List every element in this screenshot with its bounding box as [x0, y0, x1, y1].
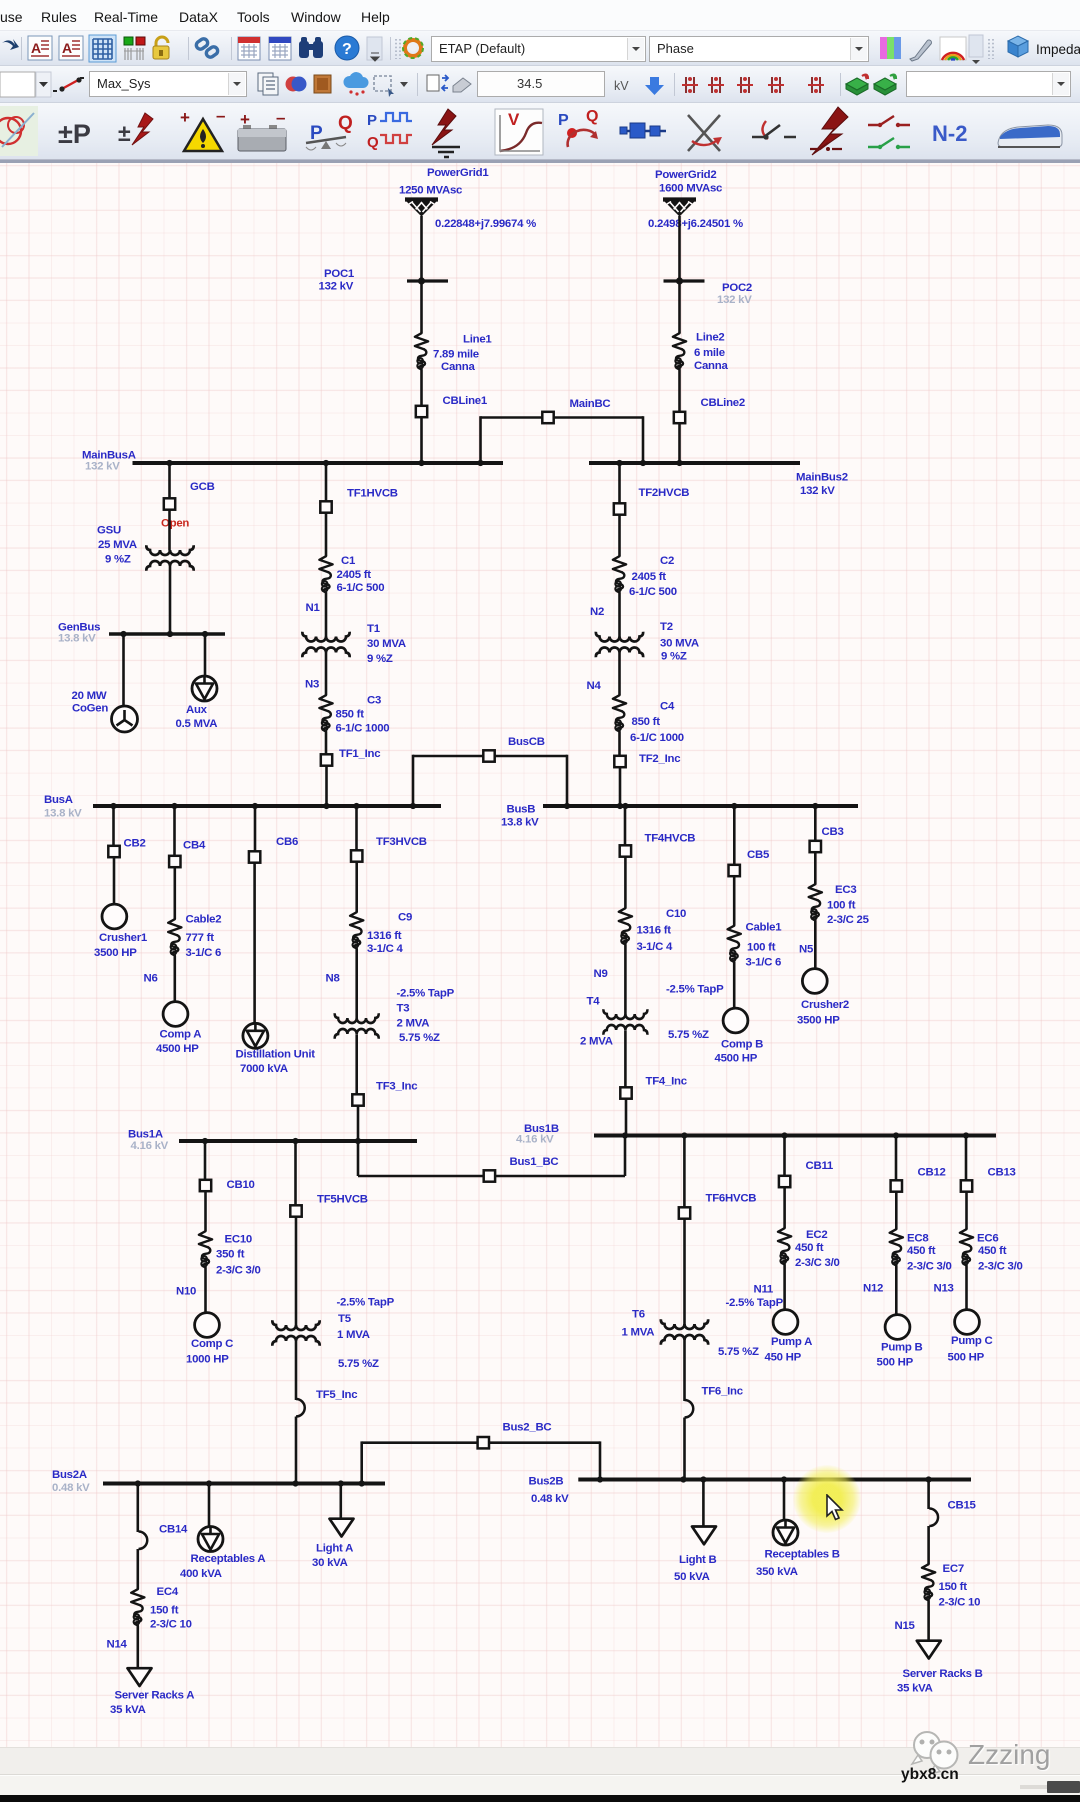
svg-text:EC3: EC3: [835, 884, 856, 896]
svg-text:100 ft: 100 ft: [747, 942, 776, 954]
svg-text:3500 HP: 3500 HP: [797, 1015, 840, 1027]
bus BusB 13.8 kV: [501, 804, 858, 829]
wire: [420, 370, 423, 405]
svg-text:EC2: EC2: [806, 1229, 827, 1241]
svg-text:1316 ft: 1316 ft: [637, 925, 672, 937]
svg-text:TF1HVCB: TF1HVCB: [347, 488, 398, 500]
motor Pump A 450 HP: [765, 1310, 813, 1364]
motor Comp B 4500 HP: [715, 1008, 764, 1064]
svg-text:100 ft: 100 ft: [827, 900, 856, 912]
node junction: [731, 803, 737, 809]
wire: [357, 1107, 360, 1142]
svg-text:777 ft: 777 ft: [186, 932, 215, 944]
wire: [112, 806, 115, 846]
cable EC6: [960, 1229, 1023, 1272]
cable EC3: [809, 884, 870, 926]
wire: [168, 511, 171, 551]
wire: [253, 864, 256, 1024]
wire / node N11: [726, 1265, 785, 1310]
wire: [174, 868, 177, 919]
svg-text:2-3/C 25: 2-3/C 25: [827, 914, 870, 926]
svg-text:9 %Z: 9 %Z: [105, 554, 131, 566]
svg-text:CoGen: CoGen: [72, 703, 108, 715]
wire: [479, 416, 482, 463]
node junction: [622, 1132, 628, 1138]
breaker Bus2_BC: [478, 1422, 552, 1449]
svg-text:CB6: CB6: [276, 836, 298, 848]
node junction: [640, 460, 646, 466]
fuse CB14: [139, 1524, 189, 1550]
svg-text:CB13: CB13: [988, 1167, 1016, 1179]
cable EC7: [922, 1563, 980, 1609]
svg-text:MainBus2: MainBus2: [796, 472, 848, 484]
svg-text:3-1/C 4: 3-1/C 4: [637, 941, 674, 953]
svg-text:T1: T1: [367, 623, 381, 635]
wire: [122, 634, 125, 707]
wire: [355, 1034, 358, 1093]
svg-text:Bus1_BC: Bus1_BC: [510, 1156, 559, 1168]
svg-text:CB12: CB12: [918, 1167, 946, 1179]
svg-text:PowerGrid1: PowerGrid1: [427, 167, 489, 179]
svg-text:EC6: EC6: [977, 1233, 998, 1245]
wire / node N9: [594, 945, 626, 1015]
svg-text:450 ft: 450 ft: [907, 1245, 936, 1257]
svg-text:ybx8.cn: ybx8.cn: [901, 1766, 959, 1783]
breaker TF3_Inc: [352, 1081, 417, 1106]
cable EC8: [890, 1229, 952, 1272]
svg-text:T4: T4: [587, 996, 601, 1008]
breaker CB10: [200, 1179, 255, 1191]
svg-text:Server Racks B: Server Racks B: [903, 1668, 983, 1680]
bus Bus1A 4.16 kV: [128, 1129, 417, 1153]
svg-text:0.48 kV: 0.48 kV: [531, 1493, 569, 1505]
svg-text:4500 HP: 4500 HP: [156, 1043, 199, 1055]
svg-text:POC1: POC1: [324, 268, 355, 280]
transformer T2 30 MVA: [596, 621, 699, 663]
fuse TF5_Inc: [296, 1389, 357, 1417]
svg-text:-2.5% TapP: -2.5% TapP: [337, 1297, 395, 1309]
wire: [358, 1175, 483, 1178]
svg-text:850 ft: 850 ft: [632, 716, 661, 728]
node junction: [323, 460, 329, 466]
svg-text:9 %Z: 9 %Z: [367, 653, 393, 665]
wire: [412, 755, 415, 806]
svg-text:TF6_Inc: TF6_Inc: [702, 1386, 743, 1398]
wire: [355, 863, 358, 913]
wire: [496, 1175, 625, 1178]
wire / node N3: [305, 653, 326, 696]
wire / node N12: [863, 1266, 896, 1315]
svg-text:TF2_Inc: TF2_Inc: [639, 753, 680, 765]
svg-text:6-1/C 500: 6-1/C 500: [629, 586, 677, 598]
breaker CB13: [961, 1167, 1016, 1192]
wire: [204, 634, 207, 677]
bus GenBus: [58, 622, 225, 645]
node junction: [781, 1476, 787, 1482]
node junction: [292, 1480, 298, 1486]
svg-text:0.5 MVA: 0.5 MVA: [176, 718, 218, 730]
breaker TF6HVCB: [679, 1193, 757, 1219]
svg-text:0.48 kV: 0.48 kV: [52, 1482, 90, 1494]
node junction: [418, 460, 424, 466]
svg-text:3-1/C 6: 3-1/C 6: [186, 947, 222, 959]
svg-text:2-3/C 10: 2-3/C 10: [939, 1597, 981, 1609]
svg-text:BusA: BusA: [44, 794, 73, 806]
svg-text:30 MVA: 30 MVA: [660, 638, 699, 650]
breaker TF1HVCB: [320, 488, 398, 513]
wire: [783, 1136, 786, 1176]
svg-text:2405 ft: 2405 ft: [337, 569, 372, 581]
wire: [625, 1100, 628, 1136]
wire: [413, 755, 483, 758]
svg-text:C1: C1: [341, 555, 356, 567]
svg-text:TF5_Inc: TF5_Inc: [316, 1389, 357, 1401]
svg-text:2 MVA: 2 MVA: [580, 1036, 613, 1048]
svg-text:0.2498+j6.24501 %: 0.2498+j6.24501 %: [648, 218, 743, 230]
wire: [339, 1484, 342, 1519]
svg-text:2405 ft: 2405 ft: [632, 571, 667, 583]
svg-text:Bus2_BC: Bus2_BC: [503, 1422, 552, 1434]
cable C2: [613, 555, 677, 598]
svg-text:N14: N14: [107, 1639, 128, 1651]
node junction: [617, 803, 623, 809]
wire: [496, 755, 568, 758]
svg-text:C9: C9: [398, 912, 412, 924]
node junction: [338, 1480, 344, 1486]
svg-text:T3: T3: [397, 1003, 410, 1015]
wire: [566, 755, 569, 806]
svg-text:Light A: Light A: [316, 1543, 353, 1555]
svg-text:-2.5% TapP: -2.5% TapP: [397, 988, 455, 1000]
breaker CB2: [108, 838, 145, 858]
transformer T1 30 MVA: [302, 623, 405, 665]
wire: [113, 858, 116, 905]
bus BusA 13.8 kV: [44, 794, 441, 820]
node junction: [359, 1480, 365, 1486]
motor Pump C 500 HP: [948, 1310, 993, 1364]
breaker CB6: [249, 836, 298, 863]
svg-text:TF4_Inc: TF4_Inc: [646, 1076, 687, 1088]
svg-text:CB5: CB5: [747, 849, 770, 861]
breaker CBLine1: [416, 395, 488, 417]
wire: [294, 1141, 297, 1205]
svg-text:0.22848+j7.99674 %: 0.22848+j7.99674 %: [435, 218, 536, 230]
wire / node N15: [895, 1601, 929, 1641]
motor Crusher2 3500 HP: [797, 969, 849, 1027]
svg-text:PowerGrid2: PowerGrid2: [655, 169, 716, 181]
svg-text:2-3/C 3/0: 2-3/C 3/0: [978, 1261, 1023, 1273]
wire: [362, 1441, 477, 1444]
node junction: [202, 1138, 208, 1144]
svg-text:132 kV: 132 kV: [717, 294, 752, 306]
svg-text:5.75 %Z: 5.75 %Z: [338, 1358, 379, 1370]
wire: [683, 1220, 686, 1325]
svg-text:5.75 %Z: 5.75 %Z: [399, 1032, 440, 1044]
svg-text:N6: N6: [144, 973, 158, 985]
svg-text:T5: T5: [338, 1313, 352, 1325]
svg-text:20 MW: 20 MW: [72, 690, 107, 702]
svg-text:150 ft: 150 ft: [150, 1605, 179, 1617]
breaker TF5HVCB: [290, 1194, 368, 1217]
node junction: [120, 631, 126, 637]
svg-text:1250 MVAsc: 1250 MVAsc: [399, 185, 462, 197]
motor Comp C 1000 HP: [186, 1313, 233, 1366]
utility PowerGrid2: [648, 169, 743, 230]
wire: [642, 416, 645, 463]
wire: [624, 858, 627, 909]
load Server Racks A 35 kVA: [110, 1668, 194, 1716]
wire: [490, 1441, 600, 1444]
svg-text:TF5HVCB: TF5HVCB: [317, 1194, 368, 1206]
svg-text:N10: N10: [176, 1286, 196, 1298]
svg-text:TF3_Inc: TF3_Inc: [376, 1081, 417, 1093]
svg-text:1 MVA: 1 MVA: [622, 1327, 655, 1339]
svg-text:Line2: Line2: [696, 332, 725, 344]
svg-text:N3: N3: [305, 679, 319, 691]
svg-text:N9: N9: [594, 968, 608, 980]
wire: [678, 424, 681, 463]
node junction: [680, 1476, 686, 1482]
wire: [624, 1030, 627, 1086]
node junction: [202, 631, 208, 637]
svg-text:25 MVA: 25 MVA: [98, 539, 137, 551]
wire: [325, 514, 328, 557]
node junction: [597, 1476, 603, 1482]
wire: [927, 1526, 930, 1564]
wire: [325, 463, 328, 501]
wire / node N4: [587, 653, 620, 696]
svg-text:3-1/C 6: 3-1/C 6: [746, 957, 782, 969]
motor Pump B 500 HP: [877, 1315, 923, 1369]
wire: [814, 853, 817, 884]
transformer T5 1 MVA: [272, 1297, 394, 1371]
svg-text:C3: C3: [367, 695, 381, 707]
svg-text:CB4: CB4: [183, 840, 206, 852]
svg-text:2-3/C 10: 2-3/C 10: [150, 1619, 192, 1631]
svg-text:4.16 kV: 4.16 kV: [516, 1134, 554, 1146]
node junction: [893, 1132, 899, 1138]
node POC1: [319, 268, 449, 293]
wire: [295, 1341, 298, 1400]
bus Bus2B 0.48 kV: [529, 1476, 972, 1506]
node junction: [110, 803, 116, 809]
svg-text:6-1/C 1000: 6-1/C 1000: [336, 723, 390, 735]
svg-text:Receptables B: Receptables B: [765, 1549, 840, 1561]
load Distillation Unit 7000 kVA: [236, 1023, 316, 1075]
breaker CB12: [891, 1167, 946, 1192]
svg-text:EC8: EC8: [907, 1233, 928, 1245]
svg-text:TF4HVCB: TF4HVCB: [645, 833, 696, 845]
wire: [137, 1484, 140, 1533]
wire: [555, 416, 644, 419]
bus MainBus2: [589, 463, 848, 497]
transmission line Line2: [673, 332, 729, 373]
wire: [325, 732, 328, 754]
wire: [683, 1418, 686, 1480]
transformer GSU 25 MVA: [97, 525, 194, 571]
svg-text:132 kV: 132 kV: [800, 485, 835, 497]
node junction: [616, 460, 622, 466]
svg-text:N11: N11: [754, 1284, 774, 1296]
svg-text:Receptables A: Receptables A: [191, 1553, 266, 1565]
load Server Racks B 35 kVA: [897, 1641, 983, 1695]
svg-text:850 ft: 850 ft: [336, 709, 365, 721]
svg-text:1 MVA: 1 MVA: [337, 1329, 370, 1341]
svg-text:EC10: EC10: [225, 1234, 253, 1246]
node junction: [700, 1476, 706, 1482]
breaker TF3HVCB: [351, 836, 427, 862]
wire / node N13: [934, 1266, 967, 1310]
svg-text:Comp A: Comp A: [160, 1029, 202, 1041]
breaker CB4: [169, 840, 206, 868]
breaker TF4_Inc: [620, 1076, 686, 1099]
breaker CB3: [810, 826, 844, 852]
svg-text:500 HP: 500 HP: [948, 1352, 985, 1364]
node junction: [477, 460, 483, 466]
wire: [355, 806, 358, 850]
wire: [733, 877, 736, 926]
svg-text:CB15: CB15: [948, 1500, 977, 1512]
breaker TF2HVCB: [614, 487, 690, 515]
node junction: [135, 1480, 141, 1486]
svg-text:1316 ft: 1316 ft: [367, 930, 402, 942]
wire: [204, 1141, 207, 1180]
svg-text:-2.5% TapP: -2.5% TapP: [726, 1297, 784, 1309]
svg-text:350 ft: 350 ft: [216, 1249, 245, 1261]
svg-text:CB2: CB2: [124, 838, 146, 850]
motor Crusher1 3500 HP: [94, 904, 148, 959]
svg-text:5.75 %Z: 5.75 %Z: [718, 1346, 759, 1358]
wire: [295, 1218, 298, 1326]
wire: [683, 1340, 686, 1401]
wire: [360, 1441, 363, 1483]
bus Bus1B 4.16 kV: [516, 1123, 996, 1146]
wire / node N5: [799, 921, 815, 970]
wire: [599, 1441, 602, 1479]
svg-text:7.89 mile: 7.89 mile: [433, 349, 479, 361]
svg-text:Canna: Canna: [441, 361, 475, 373]
svg-text:13.8 kV: 13.8 kV: [501, 817, 539, 829]
breaker CB11: [779, 1160, 834, 1187]
svg-text:Light B: Light B: [679, 1554, 716, 1566]
node junction: [166, 460, 172, 466]
wire: [683, 1136, 686, 1207]
cable Cable2: [168, 914, 221, 960]
wire: [965, 1136, 968, 1181]
wire: [624, 1136, 627, 1177]
svg-text:N4: N4: [587, 680, 602, 692]
svg-text:2 MVA: 2 MVA: [397, 1018, 430, 1030]
svg-text:GSU: GSU: [97, 525, 121, 537]
node POC2: [664, 277, 753, 306]
svg-text:N13: N13: [934, 1283, 954, 1295]
wire / node N6: [144, 956, 175, 1002]
svg-text:MainBC: MainBC: [570, 398, 611, 410]
svg-text:4.16 kV: 4.16 kV: [131, 1140, 169, 1152]
svg-text:2-3/C 3/0: 2-3/C 3/0: [795, 1257, 840, 1269]
svg-text:CBLine1: CBLine1: [443, 395, 488, 407]
wire: [618, 463, 621, 503]
wire: [208, 1484, 211, 1527]
svg-text:-2.5% TapP: -2.5% TapP: [666, 984, 724, 996]
load Receptables A 400 kVA: [180, 1527, 265, 1581]
svg-text:132 kV: 132 kV: [85, 461, 120, 473]
breaker MainBC: [542, 398, 610, 423]
wire: [965, 1193, 968, 1230]
wire: [204, 1192, 207, 1231]
svg-text:Cable2: Cable2: [186, 914, 222, 926]
wire / node N8: [326, 949, 357, 1019]
cable C1: [319, 555, 384, 594]
wire: [624, 806, 627, 845]
svg-text:6 mile: 6 mile: [694, 347, 725, 359]
fuse CB15: [929, 1500, 976, 1527]
wire / node N10: [176, 1268, 206, 1312]
wire: [733, 962, 736, 1008]
svg-text:5.75 %Z: 5.75 %Z: [668, 1029, 709, 1041]
svg-text:9 %Z: 9 %Z: [661, 651, 687, 663]
node junction: [781, 1132, 787, 1138]
svg-text:BusB: BusB: [507, 804, 536, 816]
wire: [733, 806, 736, 864]
wire: [420, 216, 423, 333]
svg-text:C4: C4: [660, 701, 675, 713]
svg-text:450 ft: 450 ft: [978, 1245, 1007, 1257]
wire: [619, 768, 622, 806]
svg-text:6-1/C 1000: 6-1/C 1000: [630, 732, 684, 744]
node junction: [206, 1480, 212, 1486]
svg-text:Open: Open: [161, 518, 189, 530]
svg-text:POC2: POC2: [722, 282, 752, 294]
svg-text:1600 MVAsc: 1600 MVAsc: [659, 183, 722, 195]
wire: [295, 1417, 298, 1484]
svg-text:13.8 kV: 13.8 kV: [44, 808, 82, 820]
breaker GCB (open): [161, 481, 215, 530]
node junction: [292, 1138, 298, 1144]
breaker CBLine2: [674, 397, 745, 423]
utility PowerGrid1: [399, 167, 536, 230]
svg-text:CB10: CB10: [227, 1179, 255, 1191]
wire / node N1: [306, 593, 327, 637]
svg-text:CBLine2: CBLine2: [701, 397, 745, 409]
node junction: [353, 803, 359, 809]
breaker Bus1_BC: [484, 1156, 559, 1182]
svg-text:3500 HP: 3500 HP: [94, 947, 137, 959]
node junction: [681, 1132, 687, 1138]
svg-text:EC7: EC7: [943, 1563, 964, 1575]
svg-text:Comp C: Comp C: [191, 1338, 233, 1350]
svg-text:CB14: CB14: [159, 1524, 188, 1536]
svg-text:450 HP: 450 HP: [765, 1352, 802, 1364]
svg-text:N8: N8: [326, 973, 340, 985]
node junction: [252, 803, 258, 809]
svg-text:C2: C2: [660, 555, 674, 567]
svg-text:Canna: Canna: [694, 360, 728, 372]
svg-text:C10: C10: [666, 908, 686, 920]
node junction: [355, 1138, 361, 1144]
svg-text:Pump A: Pump A: [771, 1336, 812, 1348]
cable Cable1: [728, 922, 783, 969]
node junction: [676, 460, 682, 466]
svg-text:7000 kVA: 7000 kVA: [240, 1063, 288, 1075]
wire: [927, 1480, 930, 1510]
load Receptables B 350 kVA: [756, 1520, 840, 1578]
wire: [357, 1141, 360, 1176]
wire: [325, 767, 328, 807]
bus MainBusA: [82, 450, 503, 473]
svg-text:6-1/C 500: 6-1/C 500: [337, 582, 385, 594]
svg-text:500 HP: 500 HP: [877, 1357, 914, 1369]
